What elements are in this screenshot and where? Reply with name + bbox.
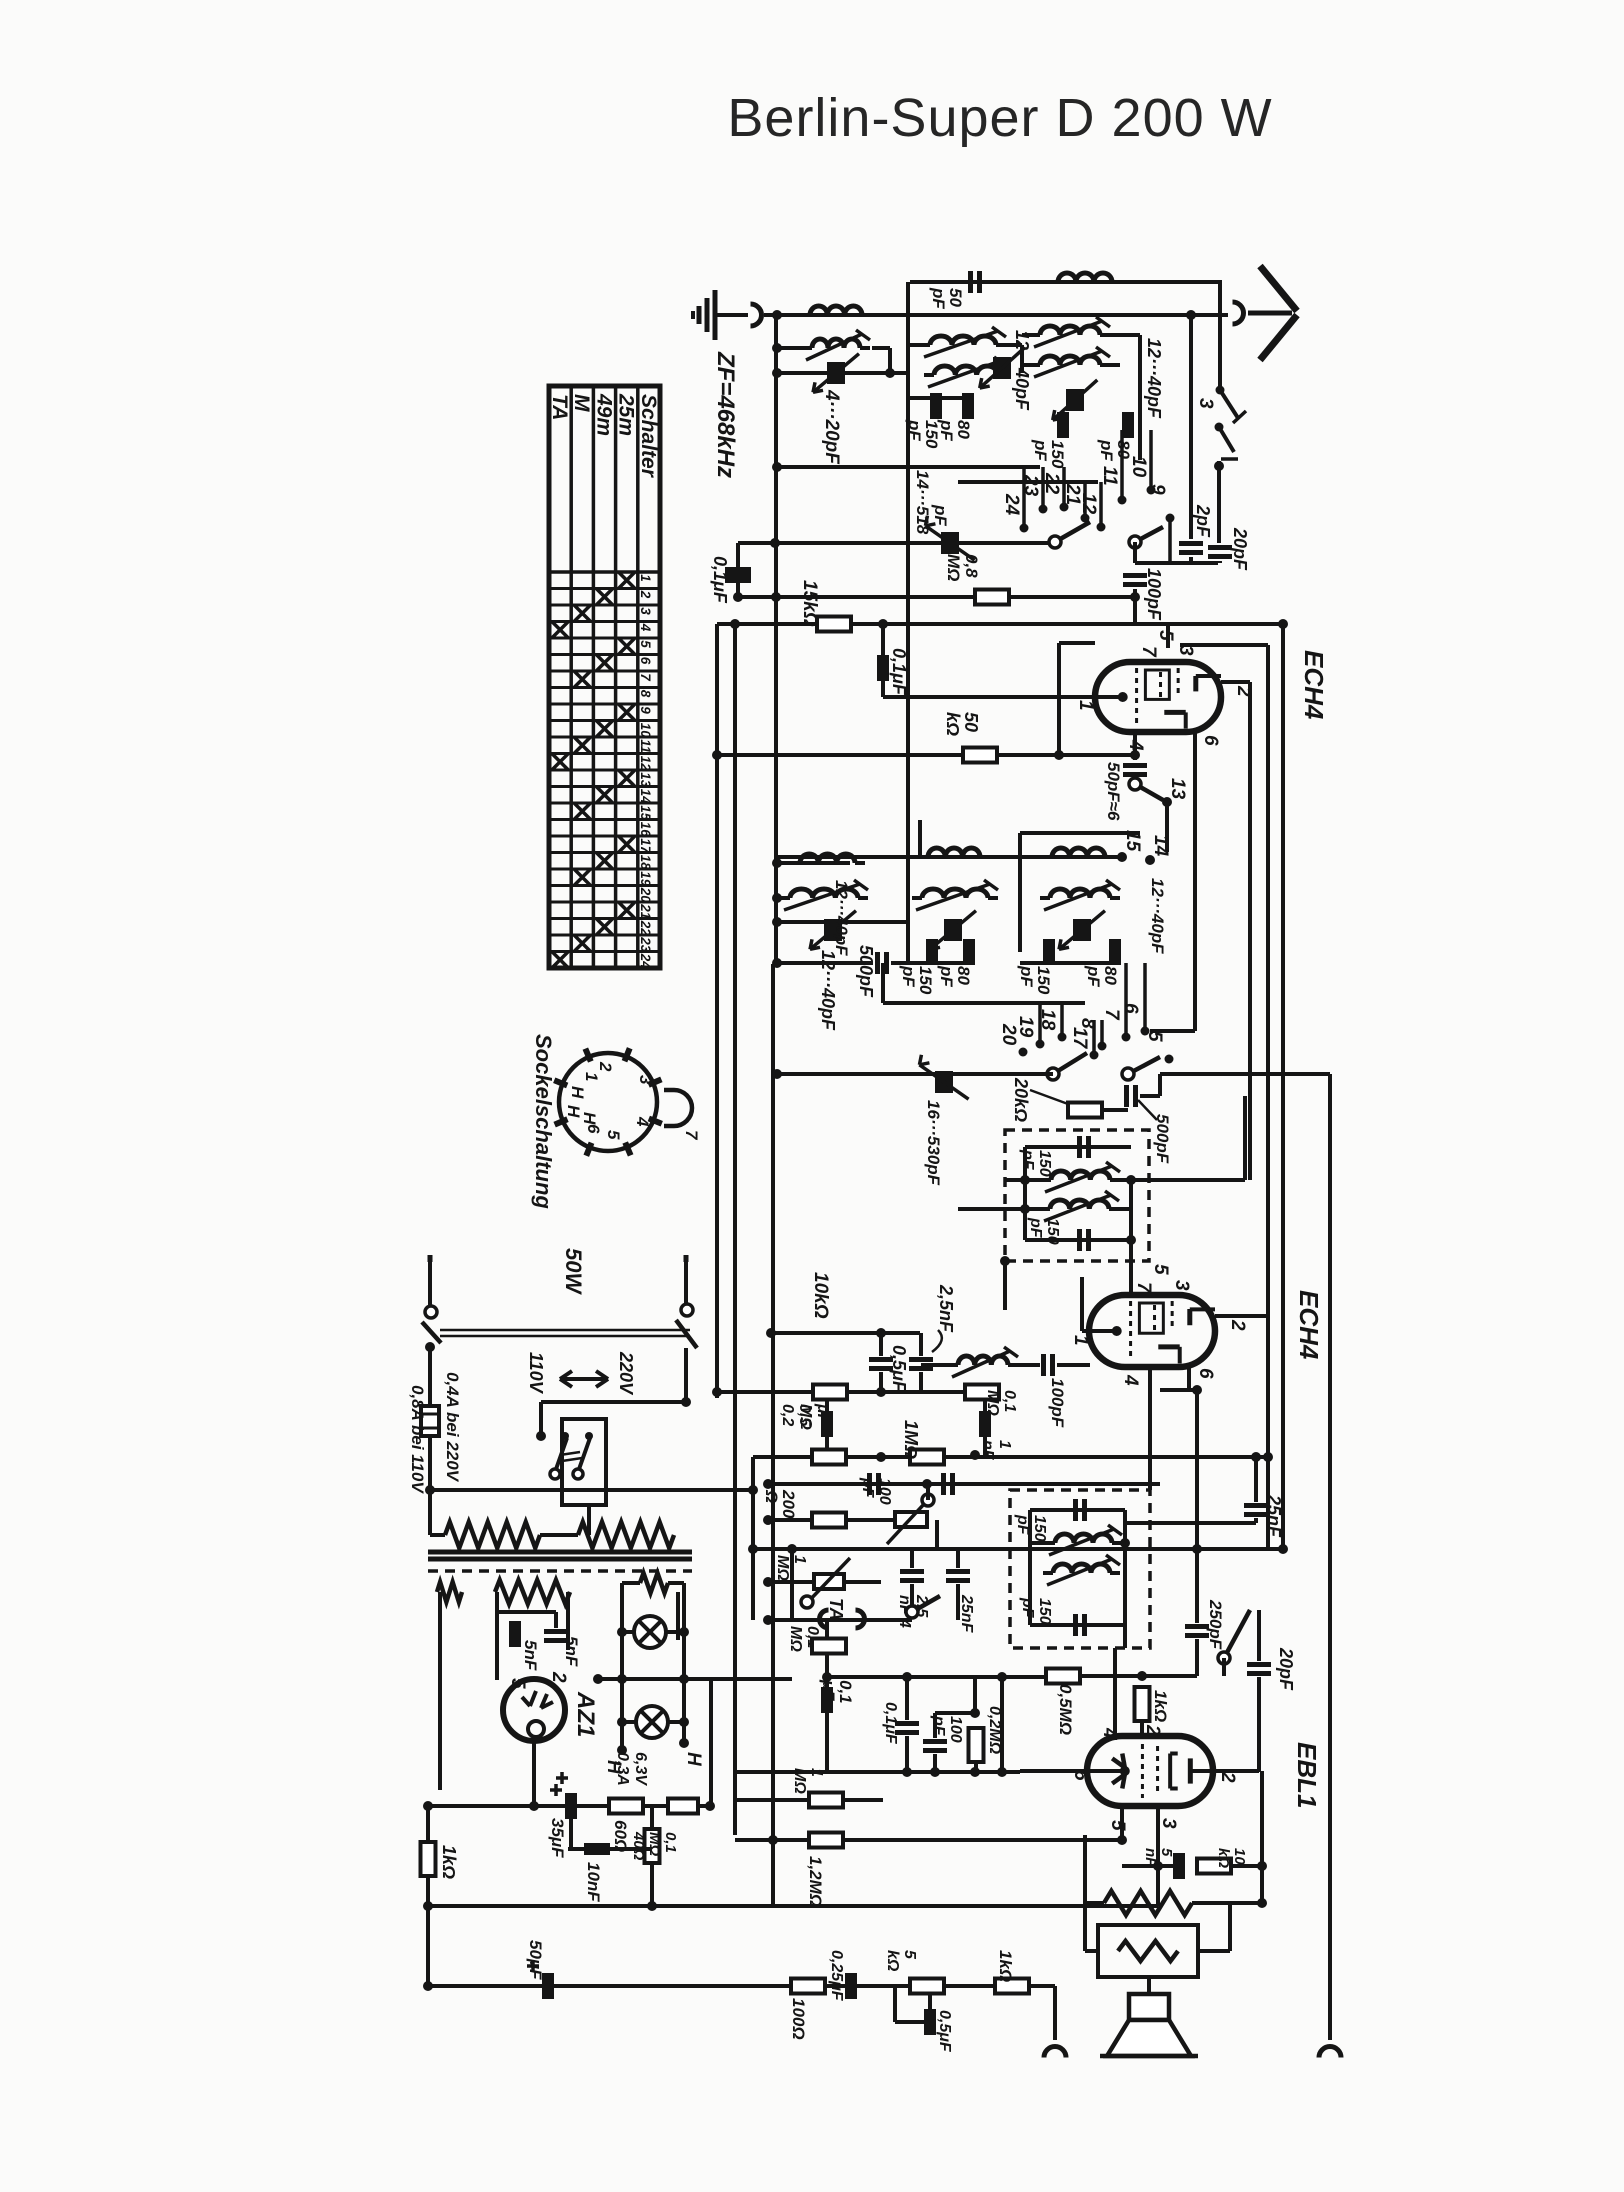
wire t2 grid wire xyxy=(1082,1329,1089,1333)
svg-text:2: 2 xyxy=(1227,1319,1248,1331)
osc contact 17 xyxy=(1090,1051,1099,1060)
node mains 220 node xyxy=(681,1397,691,1407)
wire rail y1906 r xyxy=(771,1904,1158,1908)
svg-text:11: 11 xyxy=(638,739,653,753)
leader 500pF xyxy=(1138,1100,1157,1120)
svg-text:1: 1 xyxy=(638,574,653,582)
svg-text:12: 12 xyxy=(1078,493,1099,515)
inductor coil L2c xyxy=(934,366,998,375)
svg-text:50pF: 50pF xyxy=(929,287,965,309)
capacitor capacitor 100pF d xyxy=(923,1739,947,1744)
node heater terminal b xyxy=(679,1738,689,1748)
terminal output hook right xyxy=(1319,2047,1341,2058)
svg-text:7: 7 xyxy=(682,1130,701,1141)
node mains L node xyxy=(425,1342,435,1352)
resistor resistor 0.1MΩ f xyxy=(668,1799,698,1814)
wire 05b v xyxy=(825,1398,829,1450)
svg-text:9: 9 xyxy=(638,706,653,714)
wire osc500 wire xyxy=(777,961,873,965)
switch band switch S1b xyxy=(1135,527,1163,542)
svg-text:ECH4: ECH4 xyxy=(1294,1290,1324,1360)
svg-text:20kΩ: 20kΩ xyxy=(1011,1077,1031,1122)
capacitor capacitor 50pF≈6 xyxy=(1123,763,1147,768)
node node e8 xyxy=(970,1767,980,1777)
wire bus x908 xyxy=(906,282,910,963)
wire v x1330 xyxy=(1328,1074,1332,2040)
osc contact 7 xyxy=(1122,1033,1131,1042)
wire t2 pin6 v xyxy=(1187,1364,1191,1390)
terminal TA hook left xyxy=(820,1610,829,1628)
svg-text:49m: 49m xyxy=(592,393,615,436)
svg-text:0,1μF: 0,1μF xyxy=(882,1702,899,1745)
node node a1 xyxy=(772,343,782,353)
svg-text:5: 5 xyxy=(1107,1820,1128,1831)
wire t1 pin2 wire xyxy=(1221,680,1250,684)
capacitor capacitor 0.1µF d xyxy=(895,1721,919,1726)
wire ift1 bot xyxy=(1025,1238,1131,1242)
svg-text:0,1μF: 0,1μF xyxy=(710,556,730,604)
wire tap 220 wire xyxy=(541,1400,686,1404)
svg-text:6: 6 xyxy=(1200,735,1221,746)
node node bl3 xyxy=(529,1801,539,1811)
wire bf2 row2 right xyxy=(1004,343,1022,347)
wire row y624 xyxy=(717,622,1140,626)
wire row y373 xyxy=(777,371,910,375)
node node d3 xyxy=(712,1387,722,1397)
wire ift1 top xyxy=(1025,1145,1131,1149)
node node ift1a xyxy=(1020,1175,1030,1185)
wire t2 g wire2 xyxy=(1057,1363,1090,1367)
resistor resistor 40Ω xyxy=(645,1829,660,1863)
wire 01f right xyxy=(698,1804,710,1808)
svg-text:25nF: 25nF xyxy=(958,1594,975,1634)
trimmer capacitor trimmer 4…20pF xyxy=(827,362,845,384)
wire ift2 bot xyxy=(1030,1623,1125,1627)
svg-text:13: 13 xyxy=(1167,778,1188,800)
osc contact 6 xyxy=(1141,1027,1150,1036)
node heater row end xyxy=(593,1674,603,1684)
wire sec c v2 xyxy=(676,1592,680,1640)
svg-text:6: 6 xyxy=(638,657,653,665)
node node y597a xyxy=(771,592,781,602)
switch switch 13 xyxy=(1135,784,1163,800)
resistor resistor 15kΩ xyxy=(817,617,851,632)
switch band switch S1a xyxy=(1055,522,1090,542)
svg-text:0,5μF: 0,5μF xyxy=(936,2010,953,2053)
wire L1b left xyxy=(777,346,802,350)
svg-text:14: 14 xyxy=(1150,835,1171,857)
capacitor capacitor 150pF f xyxy=(1077,1229,1082,1251)
switch link xyxy=(440,1329,690,1332)
resistor resistor 0.2MΩ xyxy=(812,1450,846,1465)
svg-text:0,4A bei 220V: 0,4A bei 220V xyxy=(443,1372,462,1483)
wire cap b v xyxy=(881,624,885,655)
svg-text:0,5MΩ: 0,5MΩ xyxy=(1056,1684,1075,1735)
capacitor capacitor 2.5nF b xyxy=(900,1569,924,1574)
wire bf3 right xyxy=(1108,333,1140,337)
svg-text:6: 6 xyxy=(1120,1003,1141,1014)
wire 20k right xyxy=(1102,1108,1128,1112)
svg-text:100pF: 100pF xyxy=(1144,568,1164,621)
wire v100pF xyxy=(1133,589,1137,624)
svg-text:14: 14 xyxy=(638,789,653,805)
wire field r xyxy=(1192,1901,1262,1905)
resistor resistor 1kΩ a xyxy=(1135,1687,1150,1721)
wire row y1582 xyxy=(768,1580,814,1584)
resistor resistor 50kΩ xyxy=(963,748,997,763)
svg-text:0,25μF: 0,25μF xyxy=(828,1950,845,2002)
capacitor capacitor 150pF g xyxy=(1073,1499,1078,1521)
svg-text:10kΩ: 10kΩ xyxy=(810,1272,831,1319)
wire ift1 inner left xyxy=(1023,1147,1027,1240)
node node o2 xyxy=(1257,1898,1267,1908)
svg-text:EBL1: EBL1 xyxy=(1292,1742,1322,1808)
fuse xyxy=(421,1406,439,1436)
wire prim left v xyxy=(430,1533,445,1537)
svg-text:1kΩ: 1kΩ xyxy=(996,1950,1015,1982)
svg-text:20pF: 20pF xyxy=(1230,527,1250,571)
capacitor capacitor 80pF c xyxy=(963,939,975,965)
wire row y1490 xyxy=(430,1488,753,1492)
wire osc row top xyxy=(777,861,850,865)
wire fuse wire top xyxy=(428,1347,432,1406)
wire bus x735 xyxy=(733,624,737,1835)
wire tap drop xyxy=(539,1402,543,1436)
leader 2.5nF xyxy=(932,1330,942,1352)
svg-text:100Ω: 100Ω xyxy=(789,1998,808,2040)
wire speaker top v xyxy=(1147,1977,1151,1994)
trimmer capacitor trimmer osc b xyxy=(944,919,962,941)
wire v x1197 up xyxy=(1195,1390,1199,1549)
wire ot conn xyxy=(1085,1949,1098,1953)
node heater terminal a xyxy=(617,1745,627,1755)
wire row y1392 xyxy=(714,1390,967,1394)
inductor osc coil L4a xyxy=(800,854,855,863)
node node a2 xyxy=(772,368,782,378)
svg-text:Berlin-Super D 200 W: Berlin-Super D 200 W xyxy=(727,88,1272,148)
wire rail y1906 xyxy=(428,1904,771,1908)
node node r1 xyxy=(1263,1452,1273,1462)
svg-text:0,8A bei 110V: 0,8A bei 110V xyxy=(408,1385,427,1494)
node contact 14 xyxy=(1145,855,1155,865)
svg-text:9: 9 xyxy=(1147,484,1168,495)
resistor resistor 200Ω xyxy=(812,1513,846,1528)
svg-text:23: 23 xyxy=(638,936,653,953)
IF transformer 2 box xyxy=(1010,1490,1150,1648)
svg-text:2: 2 xyxy=(596,1061,615,1072)
potentiometer volume 1MΩ xyxy=(814,1574,844,1589)
node node d1 xyxy=(766,1328,776,1338)
svg-text:24: 24 xyxy=(1001,493,1022,516)
mains switch right xyxy=(684,1255,689,1262)
node node x1283 top xyxy=(1278,619,1288,629)
wire 25c v1 xyxy=(1254,1457,1258,1502)
node node e5 xyxy=(930,1767,940,1777)
svg-text:pF: pF xyxy=(931,504,950,526)
svg-text:5: 5 xyxy=(1144,1031,1165,1042)
wire sec b v1 xyxy=(495,1592,499,1680)
node lamp node a2 xyxy=(679,1627,689,1637)
inductor coil L2b xyxy=(930,336,996,345)
wire osc top rail2 xyxy=(1020,831,1140,835)
wire t3 pin5 v xyxy=(1120,1804,1124,1840)
wire 10nF wire2 xyxy=(609,1847,652,1851)
wire lamp left v xyxy=(620,1583,624,1750)
socket pin 7 cap xyxy=(664,1090,692,1126)
wire ift2 mid r xyxy=(1112,1541,1125,1545)
wire ift1 gnd v xyxy=(1003,1261,1007,1310)
winding secondary winding b xyxy=(495,1580,570,1604)
svg-text:24: 24 xyxy=(638,953,653,970)
wire row y645 ext xyxy=(1180,643,1268,647)
wire 5b v xyxy=(554,1612,558,1628)
wire bf2 top rail xyxy=(910,280,1222,284)
node node osc5 xyxy=(772,1069,782,1079)
wire L1b right drop xyxy=(872,346,890,350)
wire t2 box top xyxy=(1080,1277,1084,1331)
wire 1k v1 xyxy=(426,1806,430,1842)
svg-text:6: 6 xyxy=(584,1124,603,1134)
wire lamp b wl xyxy=(622,1720,636,1724)
wire sel out xyxy=(587,1505,591,1535)
node node e3 xyxy=(902,1767,912,1777)
contact 12 xyxy=(1097,523,1106,532)
wire 1k v2 xyxy=(426,1876,430,1986)
wire switch9 drop xyxy=(1133,542,1137,563)
capacitor capacitor 50pF xyxy=(968,271,973,293)
svg-text:10: 10 xyxy=(638,723,653,739)
resistor resistor 20kΩ xyxy=(1068,1103,1102,1118)
capacitor capacitor 5nF b xyxy=(544,1629,568,1634)
svg-text:4: 4 xyxy=(638,623,653,632)
inductor ift2 coil a xyxy=(1055,1534,1112,1543)
inductor detector coil xyxy=(958,1356,1008,1365)
wire sw13 v xyxy=(1165,802,1169,852)
capacitor capacitor 100pF g1 xyxy=(1123,573,1147,578)
wire osc out v xyxy=(1158,1074,1162,1096)
wire ift1 mid r xyxy=(1110,1178,1245,1182)
trimmer capacitor trimmer 12…40pF bf2 xyxy=(993,357,1011,379)
svg-text:80pF: 80pF xyxy=(1097,439,1133,461)
wire v x1158 b xyxy=(1156,1866,1160,1906)
wire 01c v2 xyxy=(825,1713,829,1772)
svg-text:14···518: 14···518 xyxy=(913,470,932,535)
svg-text:1kΩ: 1kΩ xyxy=(439,1845,459,1879)
wire 20b v1 xyxy=(1257,1610,1261,1661)
winding secondary winding a xyxy=(437,1582,462,1602)
svg-text:20pF: 20pF xyxy=(1276,1647,1296,1691)
svg-text:110V: 110V xyxy=(526,1352,546,1395)
wire 250 v xyxy=(1195,1549,1199,1623)
node node y755b xyxy=(1054,750,1064,760)
node node e6 xyxy=(997,1672,1007,1682)
svg-text:16···530pF: 16···530pF xyxy=(924,1100,943,1186)
svg-text:1: 1 xyxy=(582,1072,601,1081)
wire 01d v1 xyxy=(905,1677,909,1720)
wire v x1262 b xyxy=(1260,1833,1264,1866)
wire osc caps rail2 xyxy=(1020,961,1115,965)
svg-text:AZ1: AZ1 xyxy=(572,1691,599,1737)
node node bl4 xyxy=(423,1901,433,1911)
wire sec c right xyxy=(668,1581,684,1585)
wire pot out xyxy=(926,1484,930,1500)
trimmer capacitor trimmer osc 12…40pF a xyxy=(824,919,842,941)
node node osc3 xyxy=(772,917,782,927)
terminal earth terminal xyxy=(751,304,762,326)
resistor resistor 10kΩ xyxy=(813,1385,847,1400)
node node osc4 xyxy=(772,958,782,968)
svg-text:3: 3 xyxy=(1195,398,1216,409)
node node bl1 xyxy=(423,1801,433,1811)
capacitor capacitor 2.5nF a xyxy=(909,1357,933,1362)
wire v x1268 xyxy=(1266,645,1270,1549)
wire 25c v2 xyxy=(1254,1518,1258,1523)
trimmer capacitor trimmer 12…40pF a xyxy=(1066,389,1084,411)
svg-text:12···40pF: 12···40pF xyxy=(1012,330,1032,411)
wire v x1002 xyxy=(1000,1677,1004,1772)
capacitor capacitor 500pF osc xyxy=(875,952,880,974)
svg-text:4: 4 xyxy=(1120,1374,1141,1386)
svg-text:80pF: 80pF xyxy=(937,965,973,987)
potentiometer treble xyxy=(895,1512,927,1527)
wire v 2pF low xyxy=(1189,557,1193,563)
capacitor capacitor 25nF c xyxy=(1244,1503,1268,1508)
capacitor capacitor 150pF a xyxy=(930,393,942,419)
wire sec a v xyxy=(438,1592,442,1790)
antenna switch contact 3 xyxy=(1216,386,1225,395)
svg-text:17: 17 xyxy=(638,838,653,855)
wire 100d top jog xyxy=(935,1711,975,1715)
svg-text:15kΩ: 15kΩ xyxy=(799,580,820,627)
wire row y482 xyxy=(958,480,1098,484)
wire row y624 ext xyxy=(1140,622,1283,626)
wire 25nFa v2b xyxy=(910,1584,914,1606)
IF transformer 1 box xyxy=(1005,1130,1149,1261)
tube tube ECH4 II xyxy=(1089,1295,1215,1367)
resistor resistor 0.1MΩ d xyxy=(812,1639,846,1654)
trimmer capacitor trimmer 16…530pF xyxy=(935,1071,953,1093)
node node d8 xyxy=(922,1479,932,1489)
node node ift1b xyxy=(1126,1175,1136,1185)
capacitor capacitor 5nF c xyxy=(1173,1853,1185,1879)
node node e1 xyxy=(1137,1671,1147,1681)
svg-text:100pF: 100pF xyxy=(1048,1378,1067,1428)
wire bus x777 xyxy=(774,315,778,964)
capacitor capacitor 25nF a xyxy=(941,1473,946,1495)
wire v 2pF xyxy=(1189,315,1193,539)
svg-text:3: 3 xyxy=(638,607,653,615)
wire row y1523 xyxy=(1125,1521,1256,1525)
wire row y1677 left xyxy=(827,1675,1079,1679)
winding primary winding a xyxy=(445,1522,540,1548)
svg-text:7: 7 xyxy=(1133,1282,1154,1294)
wire t1 box left v xyxy=(1057,643,1061,755)
resistor resistor 1kΩ left xyxy=(421,1842,436,1876)
tube AZ1 xyxy=(503,1679,565,1741)
node ant sw node xyxy=(1214,461,1224,471)
capacitor capacitor 150pF c xyxy=(926,939,938,965)
osc contact 5 xyxy=(1165,1055,1174,1064)
wire t1 pin6 wire xyxy=(1193,730,1197,1031)
wire bf2 drop xyxy=(1020,345,1024,373)
inductor antenna coil L1a xyxy=(810,306,862,315)
wire row y857 xyxy=(777,855,1122,859)
node node bl6 xyxy=(423,1981,433,1991)
wire row y1074 right xyxy=(1160,1072,1330,1076)
resistor resistor 60Ω xyxy=(609,1799,643,1814)
wire ift2 out xyxy=(1123,1625,1127,1648)
inductor coil L3b xyxy=(1040,356,1100,365)
svg-text:0,1μF: 0,1μF xyxy=(889,648,909,696)
node node e4 xyxy=(970,1708,980,1718)
wire row y755 xyxy=(717,753,1135,757)
node node e9 xyxy=(822,1672,832,1682)
node antenna node xyxy=(772,310,782,320)
svg-text:3: 3 xyxy=(1171,1280,1192,1291)
capacitor capacitor 500pF b xyxy=(1124,1085,1129,1107)
svg-text:0,5μF: 0,5μF xyxy=(889,1345,909,1393)
svg-text:5: 5 xyxy=(1155,630,1176,641)
wire ift1 out xyxy=(1129,1240,1133,1295)
osc contact 8 xyxy=(1098,1042,1107,1051)
capacitor capacitor 5nF a xyxy=(509,1621,521,1647)
node node d6 xyxy=(970,1450,980,1460)
capacitor capacitor 50µF xyxy=(542,1973,554,1999)
wire ift2 inner l xyxy=(1028,1510,1032,1625)
capacitor capacitor 1nF xyxy=(979,1411,991,1437)
inductor ift1 coil a xyxy=(1051,1171,1110,1180)
capacitor capacitor 0.5µF b xyxy=(821,1411,833,1437)
wire ot left xyxy=(1083,1835,1087,1951)
node node 25c xyxy=(1251,1452,1261,1462)
svg-text:22: 22 xyxy=(638,920,653,937)
wire 5nF wire xyxy=(1158,1864,1173,1868)
inductor ift1 coil b xyxy=(1050,1200,1109,1209)
node node e7 xyxy=(997,1767,1007,1777)
svg-text:22: 22 xyxy=(1041,472,1062,495)
svg-text:2pF: 2pF xyxy=(1193,504,1213,538)
node contact 15 xyxy=(1117,852,1127,862)
wire osc row mid xyxy=(777,896,790,900)
wire 500b wire xyxy=(1140,1094,1160,1098)
svg-text:19: 19 xyxy=(638,871,653,887)
wire mains right v xyxy=(684,1348,688,1402)
wire ift2 inner r xyxy=(1123,1510,1127,1625)
capacitor capacitor 80pF d xyxy=(1109,939,1121,965)
wire sec c left xyxy=(622,1581,640,1585)
wire 5nF rail xyxy=(497,1610,556,1614)
wire lamp a wr xyxy=(666,1630,684,1634)
wire row y467b xyxy=(962,465,1040,469)
osc contact 19 xyxy=(1036,1040,1045,1049)
svg-text:19: 19 xyxy=(1015,1016,1036,1038)
svg-text:Sockelschaltung: Sockelschaltung xyxy=(531,1034,556,1209)
resistor out xfmr winding xyxy=(1118,1941,1178,1961)
wire 40 v1 xyxy=(650,1806,654,1829)
node node ift1d xyxy=(1126,1235,1136,1245)
node node e2 xyxy=(902,1672,912,1682)
wire pot v right xyxy=(844,1580,881,1584)
svg-text:1MΩ: 1MΩ xyxy=(901,1420,921,1459)
wire bf3 left xyxy=(1022,333,1032,337)
wire v x937 xyxy=(935,1520,939,1549)
svg-text:10: 10 xyxy=(1128,456,1149,478)
node sel node xyxy=(425,1485,435,1495)
wire lamp a wl xyxy=(622,1630,634,1634)
svg-text:8: 8 xyxy=(1077,1018,1098,1029)
wire lamp b wr xyxy=(668,1720,684,1724)
wire 05c v xyxy=(928,1994,932,2015)
